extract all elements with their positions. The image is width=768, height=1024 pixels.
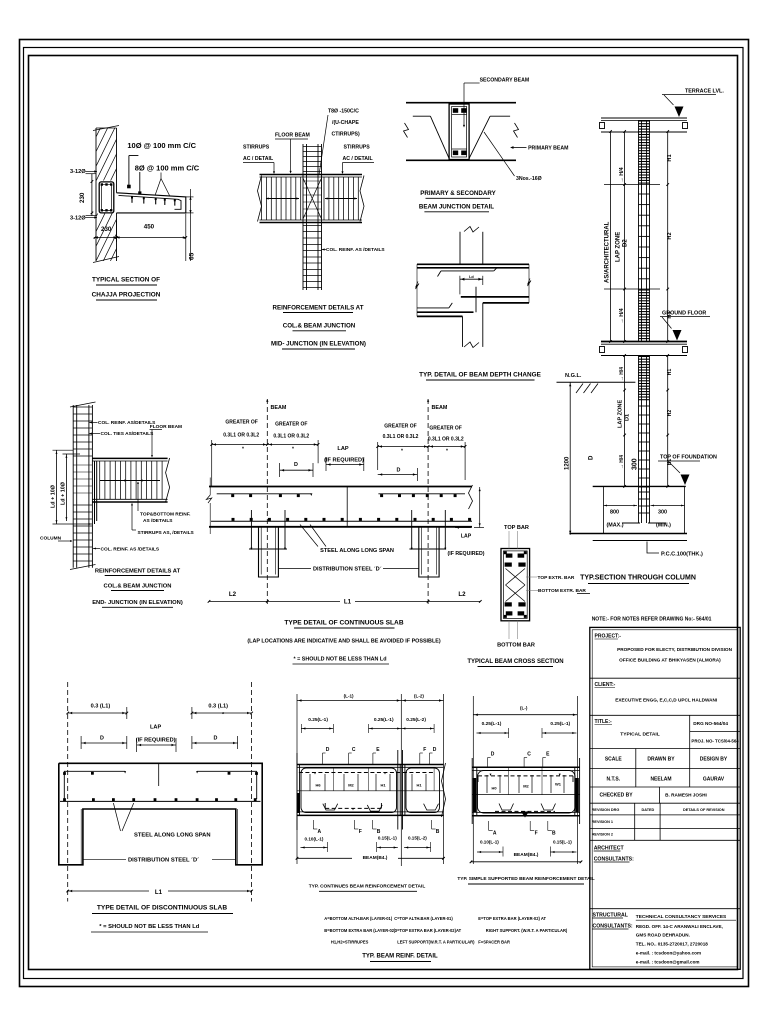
svg-text:GMS ROAD DEHRADUN.: GMS ROAD DEHRADUN. [636,933,690,938]
cont beam right break [442,763,446,817]
svg-text:e-mail. : tcsdoon@yahoo.com: e-mail. : tcsdoon@yahoo.com [636,951,701,956]
prim-sec band end breaks [404,123,409,138]
svg-text:A: A [317,829,321,835]
svg-text:D=TOP EXTRA BAR (LAYER-02)AT: D=TOP EXTRA BAR (LAYER-02)AT [394,928,461,933]
svg-text:LEFT SUPPORT(W.R.T. A PARTICU: LEFT SUPPORT(W.R.T. A PARTICULAR) [397,939,475,944]
bent bar left [413,115,431,117]
foundation bottom [569,533,687,535]
svg-text:DISTRIBUTION STEEL ´D´: DISTRIBUTION STEEL ´D´ [313,567,382,573]
chajja wall hatch lines upper [38,128,186,181]
svg-text:0.3 (L1): 0.3 (L1) [91,704,111,710]
disc slab centerline left dashed [67,682,69,902]
mid junction beam stirrups right [323,177,325,220]
svg-text:65: 65 [189,252,196,260]
disc slab inner edge doubles [80,809,82,865]
cont slab bottom edge [209,526,472,528]
svg-text:PROJECT:-: PROJECT:- [595,634,622,640]
svg-text:TYPICAL SECTION OF: TYPICAL SECTION OF [92,277,160,284]
svg-text:F: F [535,831,538,837]
svg-text:AC / DETAIL: AC / DETAIL [343,156,374,162]
cont beam bottom overall dim [297,857,444,859]
svg-text:AS/ARCHITECTURAL: AS/ARCHITECTURAL [604,221,610,283]
svg-text:SCALE: SCALE [605,757,623,763]
svg-text:TERRACE LVL.: TERRACE LVL. [685,89,724,95]
svg-text:L1: L1 [344,599,352,606]
svg-text:L1: L1 [155,889,163,896]
svg-text:SECONDARY BEAM: SECONDARY BEAM [480,78,530,84]
chajja wall hatch [96,128,117,261]
svg-text:0.15(L-1): 0.15(L-1) [553,840,572,845]
svg-text:COL. REINF. AS /DETAILS: COL. REINF. AS /DETAILS [326,247,385,253]
checked row [659,787,661,803]
cont beam stirrup cage right span [406,768,440,813]
cont beam top dashed bar [299,772,433,774]
dim 1200 [569,382,571,535]
cont slab right thickness dim [479,487,481,528]
svg-text:COL. TIES AS/DETAILS: COL. TIES AS/DETAILS [101,431,155,437]
svg-text:300: 300 [632,458,639,470]
end junction column ties upper [73,406,92,408]
svg-text:A: A [493,831,497,837]
svg-text:TYPICAL DETAIL: TYPICAL DETAIL [620,732,660,738]
svg-text:0.15(L-1): 0.15(L-1) [378,836,397,841]
end junction column breaks [70,402,96,407]
svg-text:C: C [352,747,356,753]
svg-text:LAP: LAP [461,534,472,540]
cont beam left support [296,753,298,830]
svg-text:H1: H1 [667,369,673,376]
pcc line [593,540,687,542]
svg-text:H2: H2 [667,410,673,417]
ss beam bottom overall dim [471,861,581,863]
svg-text:D: D [326,747,330,753]
divider values-checked [590,786,740,788]
svg-text:TYP. DETAIL OF BEAM DEPTH CHAN: TYP. DETAIL OF BEAM DEPTH CHANGE [419,372,542,379]
svg-text:8Ø @ 100 mm C/C: 8Ø @ 100 mm C/C [135,164,200,173]
svg-text:230: 230 [101,226,112,233]
svg-text:CONSULTANTS:: CONSULTANTS: [594,857,634,863]
svg-text:/(U-CHAPE: /(U-CHAPE [332,120,359,126]
svg-text:Ld + 10Ø: Ld + 10Ø [51,485,57,508]
disc slab top bar right [197,770,257,772]
svg-text:N.G.L.: N.G.L. [565,373,582,379]
svg-text:DISTRIBUTION STEEL ´D´: DISTRIBUTION STEEL ´D´ [128,858,199,864]
svg-text:(L-2): (L-2) [414,694,424,699]
svg-text:CTIRRUPS): CTIRRUPS) [332,132,361,138]
cont beam quarter verticals [332,768,334,791]
end junction beam outline [92,457,167,459]
disc slab centerline right dashed [251,682,253,902]
svg-text:TYP. SIMPLE SUPPORTED BEAM RE: TYP. SIMPLE SUPPORTED BEAM REINFORCEMENT… [457,876,594,882]
svg-text:L2: L2 [229,591,237,598]
svg-text:TOP EXTR. BAR: TOP EXTR. BAR [538,575,575,581]
svg-text:GREATER OF: GREATER OF [429,426,461,432]
dim line below chajja [94,237,186,239]
cross section X bottom [506,585,526,602]
svg-text:DRAWN BY: DRAWN BY [647,757,675,763]
left dim line as-architectural [610,132,612,342]
chajja slab chairs [131,196,133,203]
divider architect-structural [590,908,740,910]
svg-text:* = SHOULD NOT BE LESS THAN Ld: * = SHOULD NOT BE LESS THAN Ld [99,924,199,930]
end junction anchorage bars [94,461,96,524]
svg-text:COL. REINF. AS/DETAILS: COL. REINF. AS/DETAILS [98,420,156,426]
svg-text:GAURAV: GAURAV [703,777,725,783]
dim 65 slab tip [186,196,194,198]
cont beam 0.25 dims [301,728,333,730]
lap zone D2 dim [624,132,626,342]
svg-text:MID- JUNCTION (IN ELEVATION): MID- JUNCTION (IN ELEVATION) [271,341,366,348]
chajja beam top bars [101,183,103,185]
svg-text:D: D [100,736,104,742]
svg-text:REVISION DRG: REVISION DRG [592,808,620,812]
svg-text:D: D [397,468,401,474]
svg-text:H1: H1 [667,154,673,161]
end junction column rails [72,405,74,568]
mid junction column rails [302,144,304,290]
svg-text:STIRRUPS: STIRRUPS [243,145,270,151]
svg-text:D: D [433,747,437,753]
svg-text:*: * [242,447,244,453]
svg-text:AS /DETAILS: AS /DETAILS [143,518,173,524]
cont slab left beam lap bars [250,510,252,549]
cont slab centerline left dashed [266,399,268,607]
label beam right [427,399,429,402]
svg-text:TOP&BOTTOM REINF.: TOP&BOTTOM REINF. [140,512,190,518]
svg-text:D1: D1 [625,414,631,421]
chajja slab top bar [119,195,182,209]
svg-text:0.25(L-1): 0.25(L-1) [308,717,328,723]
svg-text:REINFORCEMENT DETAILS AT: REINFORCEMENT DETAILS AT [273,305,364,312]
svg-text:0.25(L-1): 0.25(L-1) [482,721,502,727]
svg-text:F: F [359,829,362,835]
chajja beam concrete [97,181,116,214]
ground floor slab [601,341,687,343]
scale drawn design header [635,749,637,788]
svg-text:C=TOP ALTH.BAR (LAYER-01): C=TOP ALTH.BAR (LAYER-01) [394,916,453,921]
cont beam bottom dims [301,847,328,849]
svg-text:H1: H1 [416,783,422,788]
svg-text:PRIMARY & SECONDARY: PRIMARY & SECONDARY [420,190,496,197]
svg-text:M2: M2 [523,784,529,789]
svg-text:→ H/4: → H/4 [619,455,625,469]
svg-text:EXECUTIVE ENGG, E,C,C,D UPCL H: EXECUTIVE ENGG, E,C,C,D UPCL HALDWANI [615,698,717,703]
cross section bottom bars row2 [506,611,513,615]
mid junction column cross brace [303,178,322,219]
svg-text:B: B [552,831,556,837]
depth change lower column [462,316,464,347]
svg-text:PROJ. NO- TCS/04-564: PROJ. NO- TCS/04-564 [691,739,739,744]
svg-text:TYPICAL BEAM CROSS SECTION: TYPICAL BEAM CROSS SECTION [467,659,563,665]
svg-text:(IF REQUIRED): (IF REQUIRED) [324,458,364,464]
svg-text:→ H/4: → H/4 [619,167,625,182]
svg-text:COL.& BEAM JUNCTION: COL.& BEAM JUNCTION [283,323,356,330]
svg-text:0.3L1 OR 0.3L2: 0.3L1 OR 0.3L2 [383,434,419,440]
svg-text:3Nos.-16Ø: 3Nos.-16Ø [516,176,542,182]
depth change upper lap bar [441,270,494,272]
svg-text:GREATER OF: GREATER OF [275,422,307,428]
svg-text:ARCHITECT: ARCHITECT [594,846,625,852]
depth change left beam bottom lines [417,311,474,313]
svg-text:TOP OF FOUNDATION: TOP OF FOUNDATION [660,455,717,461]
cont beam extension verticals [296,694,298,864]
svg-text:0.10(L-1): 0.10(L-1) [305,837,324,842]
column lap ties below ground dense [639,356,650,358]
svg-text:BEAM: BEAM [271,405,287,411]
end junction side bar [100,480,160,482]
svg-text:L2: L2 [458,591,466,598]
disc slab mid lap line [158,763,160,786]
svg-text:M2: M2 [348,783,354,788]
svg-text:H1,H2=STIRRUPES: H1,H2=STIRRUPES [331,939,369,944]
disc slab bottom bar [60,800,261,802]
svg-text:GREATER OF: GREATER OF [384,424,416,430]
ss beam stirrup cage [478,771,576,814]
svg-text:T8Ø -150C/C: T8Ø -150C/C [328,109,359,115]
end junction column ties lower [73,504,92,506]
svg-text:(LAP LOCATIONS ARE INDICATIVE: (LAP LOCATIONS ARE INDICATIVE AND SHALL … [247,639,440,645]
mid junction column ties below beam [303,225,322,227]
svg-text:REVISION 2: REVISION 2 [592,833,613,837]
tick crossbars [604,184,660,186]
svg-text:N.T.S.: N.T.S. [606,777,620,783]
ss beam extension verticals [472,696,474,864]
cont beam mid line [297,790,444,792]
cross section corner dots top [504,551,507,554]
svg-text:450: 450 [144,223,155,230]
mid junction beam stirrups left [261,177,263,220]
column rails upper [638,121,640,342]
svg-text:e-mail. : tcsdoon@gmail.com: e-mail. : tcsdoon@gmail.com [636,960,700,965]
svg-text:D: D [214,736,218,742]
svg-text:REGD. OFF. 14-C ARANWALI ENCLA: REGD. OFF. 14-C ARANWALI ENCLAVE, [636,924,723,929]
svg-text:PROPOSED FOR ELECTY, DISTRIBUT: PROPOSED FOR ELECTY, DISTRIBUTION DIVISI… [617,647,732,652]
svg-text:D2: D2 [623,239,629,247]
svg-text:B: B [436,829,440,835]
svg-text:TYP.SECTION THROUGH COLUMN: TYP.SECTION THROUGH COLUMN [580,575,696,582]
svg-text:COL. REINF. AS /DETAILS: COL. REINF. AS /DETAILS [101,547,160,553]
svg-text:BOTTOM BAR: BOTTOM BAR [497,643,535,649]
dim line greater-of left [212,444,318,446]
svg-text:(L-): (L-) [520,706,528,711]
terrace slab [601,117,687,119]
svg-text:H6: H6 [315,783,321,788]
svg-text:230: 230 [79,192,86,203]
svg-text:(IF REQUIRED): (IF REQUIRED) [136,738,176,744]
svg-text:0.3 (L1): 0.3 (L1) [208,704,228,710]
ss beam top dashed bar [478,775,573,777]
svg-text:(MAX.): (MAX.) [607,523,624,529]
ss beam bottom dims [477,851,503,853]
svg-text:C: C [527,752,531,758]
svg-text:CHECKED BY: CHECKED BY [599,793,633,799]
svg-text:D: D [294,462,298,468]
right dim line H1 H2 [667,132,669,342]
disc slab outline [59,763,262,865]
dim extension lines chajja [116,221,118,243]
dim L1 L2 line [209,600,480,602]
ss beam bottom hooks [499,804,514,811]
svg-text:STIRRUPS: STIRRUPS [344,145,371,151]
cont slab left edge [209,478,211,496]
svg-text:P.C.C.100(THK.): P.C.C.100(THK.) [661,552,703,558]
svg-text:B: B [377,829,381,835]
disc slab top bar left [64,770,125,772]
svg-text:DETAILS OF REVISION: DETAILS OF REVISION [683,808,725,812]
column rails lower [638,356,640,524]
svg-text:PRIMARY BEAM: PRIMARY BEAM [528,146,568,152]
svg-text:0.3L1 OR 0.3L2: 0.3L1 OR 0.3L2 [223,433,259,439]
svg-text:FLOOR BEAM: FLOOR BEAM [150,424,182,430]
ss beam left support [471,758,473,824]
svg-text:Ld: Ld [469,275,474,279]
svg-text:3-12Ø: 3-12Ø [70,216,86,222]
svg-text:H2: H2 [667,232,673,239]
revision header row [634,803,636,840]
column ties middle sparse [639,193,650,195]
mid junction side bars right [325,198,357,200]
cont slab bottom bar [211,520,472,522]
ss beam 0.25 dims [477,732,509,734]
leader 10mm bar [129,155,139,157]
end junction column ties in beam [73,464,92,466]
mid junction beam end breaks [258,176,262,222]
svg-text:GROUND FLOOR: GROUND FLOOR [662,311,706,317]
ss beam mid line [472,794,579,796]
svg-text:*: * [401,449,403,455]
svg-text:FLOOR BEAM: FLOOR BEAM [275,133,310,139]
secondary beam bottom bars [453,151,458,156]
svg-text:D: D [589,455,595,460]
svg-text:TECHNICAL CONSULTANCY SERVICES: TECHNICAL CONSULTANCY SERVICES [636,914,727,920]
chajja beam inner stirrup [102,184,112,210]
chajja wall bottom break [93,257,119,263]
svg-text:NEELAM: NEELAM [650,777,671,783]
cont beam mid support [397,750,399,830]
end junction beam end break [166,458,170,502]
svg-text:STEEL ALONG LONG SPAN: STEEL ALONG LONG SPAN [320,548,394,554]
svg-text:BEAM(B4.): BEAM(B4.) [363,855,388,861]
svg-text:OFFICE BUILDING AT BHIKYASEN (: OFFICE BUILDING AT BHIKYASEN (ALMORA) [619,657,721,662]
svg-text:LAP ZONE: LAP ZONE [618,400,624,428]
svg-text:D: D [491,752,495,758]
depth change beam right edge [528,264,530,303]
cross section top bars row2 [505,563,512,567]
divider title-scale [590,748,740,750]
dim 230 vertical beam depth [91,174,93,216]
svg-text:STRUCTURAL: STRUCTURAL [593,913,629,919]
ngl hatch [576,384,583,394]
svg-text:A=BOTTOM ALTH.BAR (LAYER-01): A=BOTTOM ALTH.BAR (LAYER-01) [324,916,393,921]
svg-text:TYP. BEAM REINF. DETAIL: TYP. BEAM REINF. DETAIL [362,954,438,960]
column lap ties lower dense [639,289,650,291]
beam cross section inner box [503,551,527,619]
cont slab top bar left [217,493,312,495]
svg-text:LAP ZONE: LAP ZONE [616,232,622,262]
svg-text:→ H/4: → H/4 [619,308,625,323]
bent bar right [469,116,490,158]
svg-text:REVISION 1: REVISION 1 [592,820,613,824]
svg-text:0.10(L-1): 0.10(L-1) [480,840,499,845]
cont slab right beam lap bars [411,510,413,549]
depth change left beam bar hook [417,307,449,309]
cross section X top [506,569,526,586]
column ties lower sparse [639,405,650,407]
svg-text:LAP: LAP [150,725,161,731]
mid junction column ties above beam [303,146,322,148]
svg-text:STEEL ALONG LONG SPAN: STEEL ALONG LONG SPAN [134,833,211,839]
prim-sec beam band [406,102,516,104]
drg no cell [689,715,691,748]
svg-text:TOP BAR: TOP BAR [504,525,529,531]
lap zone D1 dim [624,356,626,487]
svg-text:0.3L1 OR 0.3L2: 0.3L1 OR 0.3L2 [273,434,309,440]
svg-text:END- JUNCTION (IN ELEVATION): END- JUNCTION (IN ELEVATION) [92,600,183,606]
svg-text:DESIGN BY: DESIGN BY [700,757,728,763]
svg-text:E=TOP EXTRA BAR (LAYER-02) AT: E=TOP EXTRA BAR (LAYER-02) AT [478,916,546,921]
cont beam bottom dashed bar [325,807,381,809]
svg-text:F=SPACER BAR: F=SPACER BAR [478,939,510,944]
svg-text:DATED: DATED [642,808,655,812]
title block inner edge [592,630,738,967]
ss beam stirrup symbols [486,775,488,793]
svg-text:BEAM(B4.): BEAM(B4.) [514,852,539,858]
svg-text:0.15(L-2): 0.15(L-2) [408,836,427,841]
chajja beam bottom bars [101,209,103,211]
secondary beam box [449,104,469,160]
svg-text:COL.& BEAM JUNCTION: COL.& BEAM JUNCTION [104,584,172,590]
secondary beam top bars [453,108,458,113]
svg-text:(MIN.): (MIN.) [656,523,671,529]
depth change hanging bar [475,287,477,312]
cont slab right end break [469,485,473,509]
ss beam quarter verticals [508,768,510,795]
cont slab beam inner stirrups [260,527,262,575]
svg-text:STIRRUPS AS, /DETAILS: STIRRUPS AS, /DETAILS [138,530,195,536]
cont slab mid lap line [346,487,348,527]
mid junction beam outline [260,174,363,176]
svg-text:B. RAMESH JOSHI: B. RAMESH JOSHI [665,793,707,798]
cont slab left beam [259,527,279,577]
divider checked-revision [590,802,740,804]
svg-text:B=BOTTOM EXTRA BAR (LAYER-02): B=BOTTOM EXTRA BAR (LAYER-02) [324,928,396,933]
end junction beam stirrups [94,461,96,499]
cont beam top dim [297,700,444,702]
beam cross section outer box [501,549,530,621]
foundation top line [593,485,686,487]
divider scale header [590,768,740,770]
mid junction side bars left [266,198,299,200]
svg-text:H0: H0 [491,786,497,791]
svg-text:→ H/4: → H/4 [619,367,625,381]
depth change upper column [459,232,461,264]
svg-text:GREATER OF: GREATER OF [225,420,257,426]
label pcc [647,542,659,554]
svg-text:CHAJJA PROJECTION: CHAJJA PROJECTION [92,292,161,299]
depth change beam left edge [416,264,418,316]
svg-text:0.25(L-1): 0.25(L-1) [374,717,394,723]
divider client-title [590,714,740,716]
svg-text:(IF REQUIRED): (IF REQUIRED) [448,551,485,557]
chajja wall top break [93,126,119,131]
dim 800 max [604,505,638,507]
dim line greater-of right [378,446,465,448]
svg-text:DRG NO-564/04: DRG NO-564/04 [693,721,728,726]
svg-text:LAP: LAP [337,446,348,452]
chajja beam stirrup [99,182,114,213]
svg-text:TEL. NO.. 0135-2720017, 272001: TEL. NO.. 0135-2720017, 2720018 [636,942,708,947]
foundation sides [603,486,605,533]
